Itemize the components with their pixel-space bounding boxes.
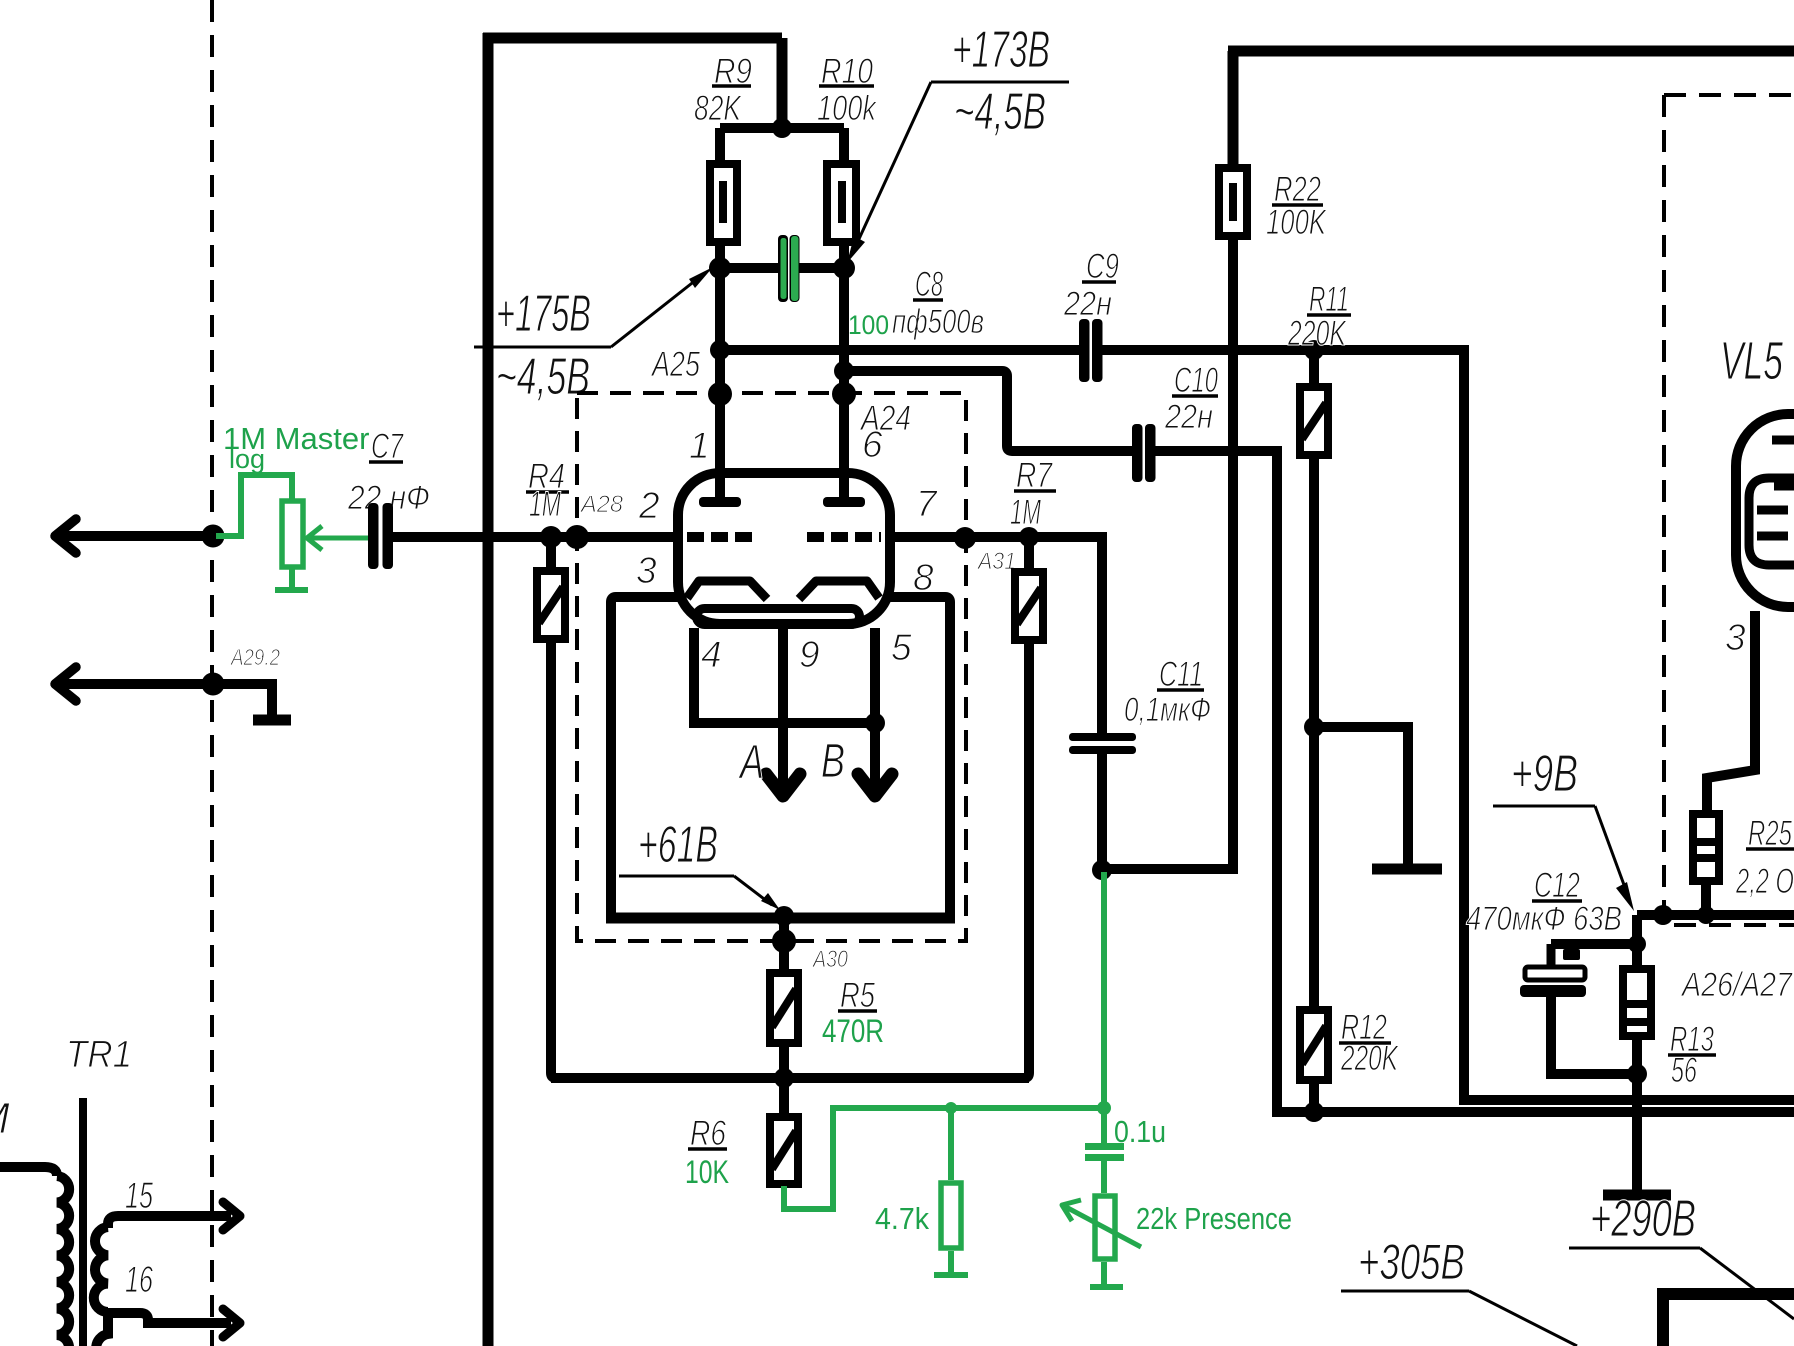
junction dot R25 bottom (1697, 906, 1715, 924)
svg-text:R6: R6 (690, 1114, 726, 1153)
wire from A29.2 to ground (213, 684, 272, 716)
wire R5 to rail (779, 1047, 789, 1113)
resistor R13 body (1623, 969, 1651, 1036)
svg-text:220K: 220K (1340, 1039, 1399, 1078)
svg-text:22н: 22н (1063, 285, 1112, 323)
anode plate pin 1 (699, 497, 741, 507)
wire R4 bottom to cathode rail (551, 643, 606, 1078)
svg-text:22н: 22н (1164, 398, 1213, 436)
green wire 0.1u to presence pot (1101, 1161, 1107, 1193)
svg-text:4: 4 (701, 634, 722, 675)
heater stadium bar (697, 609, 860, 625)
cathode return rail (551, 1073, 1029, 1083)
green 4.7k lower lead (948, 1251, 954, 1272)
TR1 primary lead wire (0, 1167, 57, 1176)
wire: left output arrow shaft (to master pot) (62, 531, 214, 541)
wire C11 bottom (1097, 754, 1107, 871)
+9V heater rail (1459, 1095, 1794, 1105)
wire R13 to +290V ground (1632, 1040, 1642, 1190)
heater bottom wire 4-5 (689, 718, 882, 728)
wire: big feedback box left vertical (483, 33, 494, 1346)
resistor R11 leads (1309, 350, 1319, 383)
svg-text:C7: C7 (371, 427, 404, 466)
svg-text:470мкФ 63В: 470мкФ 63В (1466, 900, 1622, 938)
svg-text:4.7k: 4.7k (875, 1201, 929, 1236)
junction dot R7 top (1019, 527, 1039, 547)
svg-text:A30: A30 (811, 946, 848, 973)
svg-text:пф500в: пф500в (892, 303, 984, 341)
capacitor C12 bottom lead (1551, 997, 1637, 1074)
svg-text:9: 9 (799, 634, 820, 675)
junction dot R5/R6 on rail (774, 1068, 794, 1088)
arrow head left output 2 (55, 667, 76, 701)
cathode right triode (799, 581, 879, 599)
master pot ground bar (green) (275, 587, 308, 593)
svg-text:A25: A25 (650, 345, 700, 384)
junction dot R11 top (1304, 340, 1324, 360)
svg-text:82K: 82K (694, 89, 742, 128)
svg-text:C11: C11 (1159, 655, 1203, 694)
wire R12 to HT rail (1309, 1084, 1319, 1112)
svg-text:1M: 1M (529, 485, 562, 524)
wire R11 to R12 (1309, 459, 1319, 1006)
cathode box bottom wire (606, 913, 955, 924)
resistor R22 body (1219, 168, 1247, 236)
wire C11 link to R22 line (1102, 864, 1238, 874)
svg-text:+290В: +290В (1590, 1190, 1696, 1248)
grid dashes (right triode) (807, 532, 881, 542)
wire: R9/R10 top connection (720, 123, 844, 133)
wire branch to C12 (1551, 939, 1637, 949)
junction dot C8-wire branch (710, 340, 730, 360)
heater pin 5 wire (870, 628, 880, 723)
wire VL5 cathode pin3 to R25 (1707, 611, 1755, 810)
potentiometer 1M Master (green) body (282, 501, 303, 567)
wire: second output arrow shaft A29.2 (62, 679, 214, 689)
svg-text:3: 3 (1725, 617, 1746, 658)
resistor R11 body (1300, 387, 1328, 455)
wire down to R13 (1632, 915, 1642, 965)
wire C9 to corner (1102, 345, 1469, 355)
junction dot heater B (865, 713, 885, 733)
wire anode to C9 (plate output) (720, 345, 1081, 355)
resistor R4 leads (546, 537, 556, 567)
wire R22 down to C11 junction (1228, 240, 1238, 869)
svg-text:100K: 100K (1266, 203, 1327, 242)
heater arrow A (pin 9) (778, 628, 788, 790)
wire R22 drop from top rail (1228, 51, 1239, 164)
resistor R5 body (770, 973, 798, 1043)
wire R7 bottom to rail (1024, 644, 1029, 1078)
net boundary dashed line (left) (210, 0, 214, 1346)
resistor R10 leads (839, 128, 849, 162)
TR1 secondary winding 15-16 (94, 1227, 108, 1312)
svg-text:VL5: VL5 (1720, 331, 1784, 391)
svg-text:A28: A28 (579, 491, 624, 518)
master pot lower lead (green) (289, 569, 295, 588)
svg-text:7: 7 (916, 483, 938, 524)
resistor R25 body (1693, 814, 1719, 881)
svg-text:3: 3 (636, 550, 657, 591)
VL5 heater dashes (1772, 436, 1794, 445)
capacitor C12 plates (electrolytic) (1525, 967, 1585, 980)
green potentiometer 22k body (1095, 1196, 1115, 1259)
svg-text:6: 6 (862, 424, 883, 465)
resistor R10 body (827, 164, 856, 242)
arrow head left output 1 (55, 519, 76, 553)
svg-text:R25: R25 (1748, 814, 1792, 853)
master pot wiper arrow (green) from C7 (308, 536, 369, 541)
resistor R4 body (537, 571, 565, 639)
resistor R9 leads (715, 128, 725, 162)
svg-text:1M: 1M (1010, 493, 1042, 532)
svg-text:2,2 О: 2,2 О (1735, 862, 1794, 901)
shield dashed box around triode (577, 393, 966, 941)
junction dot R13 bottom (1627, 1064, 1647, 1084)
cathode left triode (687, 581, 767, 599)
wire C10 to corner (1155, 446, 1282, 456)
TR1 lower winding continues (96, 1312, 108, 1346)
callout arrow to right triode anode (853, 82, 931, 252)
green pot arrow (1064, 1206, 1141, 1247)
svg-text:15: 15 (125, 1175, 153, 1216)
svg-text:+173В: +173В (952, 21, 1050, 79)
node dot right anode (833, 257, 855, 279)
capacitor C8 plates (black under green mod) (778, 235, 788, 302)
junction dot plate supply (772, 118, 792, 138)
svg-text:16: 16 (125, 1259, 153, 1300)
ground (chassis) +290V (1603, 1190, 1671, 1201)
junction dot cathode box / R5 (774, 906, 794, 926)
svg-text:0.1u: 0.1u (1114, 1114, 1166, 1149)
svg-text:8: 8 (913, 557, 934, 598)
wire main grid drop to C11 (1097, 532, 1107, 733)
junction dot at shield boundary A28 (565, 525, 589, 549)
junction dot bias ground tap (1304, 717, 1324, 737)
green junction dot 4.7k (945, 1102, 957, 1114)
cathode node wire VL5 (1637, 910, 1794, 920)
heater arrow B (870, 723, 880, 790)
wire A24 step to C10 (844, 371, 1133, 451)
svg-text:A26/A27: A26/A27 (1680, 966, 1793, 1004)
junction dot R12 on rail (1304, 1102, 1324, 1122)
wire C7 to R4/grid (main signal wire) (393, 532, 679, 542)
top supply rail (1228, 46, 1794, 57)
wire cathode box to R5 (779, 916, 789, 969)
node A29.2 dot (202, 673, 225, 696)
green resistor 4.7k body (941, 1183, 961, 1248)
wire pin8 to cathode box (890, 597, 950, 918)
svg-text:+9В: +9В (1511, 745, 1578, 803)
green pot ground bar (1090, 1284, 1123, 1290)
capacitor C8 green overdrawn plates (781, 238, 787, 299)
TR1 pin 16 wire with arrow (108, 1313, 231, 1323)
node dot left anode (709, 257, 731, 279)
svg-text:B: B (821, 735, 845, 788)
svg-text:10K: 10K (685, 1154, 729, 1190)
ground (chassis) for A29.2 (253, 715, 291, 726)
green resistor 4.7k lead (948, 1108, 954, 1180)
green pot lower lead (1101, 1262, 1107, 1284)
resistor R6 body (770, 1117, 798, 1184)
svg-text:2: 2 (638, 485, 660, 526)
svg-text:TR1: TR1 (66, 1034, 132, 1076)
callout arrow to left triode anode (611, 276, 701, 347)
green riser to C11 node (1101, 872, 1107, 1108)
junction dot C10-wire branch (834, 361, 854, 381)
node dot on dashed line (master wire) (202, 525, 225, 548)
ground (chassis) bias (1372, 864, 1442, 875)
svg-text:A31: A31 (976, 548, 1016, 575)
svg-text:C8: C8 (915, 265, 943, 304)
green capacitor 0.1u lead (1101, 1108, 1107, 1144)
resistor R7 body (1015, 572, 1043, 640)
green wire from node to master pot top (216, 475, 292, 536)
svg-text:5: 5 (891, 627, 912, 668)
capacitor C10 plates (1132, 424, 1143, 482)
junction dot A30 on shield edge (772, 929, 796, 953)
capacitor C12 top lead (1547, 944, 1556, 968)
wire vertical from C10 down to HT rail (1272, 451, 1282, 1112)
junction dot at shield box top (pin6) (832, 382, 856, 406)
junction dot C11 bottom / presence tap (1092, 860, 1112, 880)
resistor R12 body (1300, 1010, 1328, 1080)
power block corner box (1663, 1294, 1794, 1346)
svg-text:A: A (738, 736, 764, 789)
svg-text:C10: C10 (1174, 361, 1218, 400)
C12 polarity mark (1563, 949, 1580, 960)
svg-text:+305В: +305В (1358, 1234, 1465, 1290)
TR1 pin 15 wire with arrow (108, 1216, 231, 1228)
green wire R6 to presence node (784, 1108, 1104, 1209)
wire: big feedback box top (483, 33, 782, 44)
tube VL4 envelope (678, 473, 890, 624)
grid dashes (left triode) (687, 532, 758, 542)
svg-text:+175В: +175В (496, 285, 591, 343)
resistor R7 leads (1024, 537, 1034, 568)
HT return rail (1272, 1107, 1794, 1117)
svg-text:100: 100 (848, 310, 889, 340)
wire R25 to cathode node (1701, 885, 1711, 915)
capacitor C11 plates (horizontal) (1069, 733, 1136, 741)
svg-text:56: 56 (1671, 1051, 1697, 1090)
junction dot cathode node (1653, 905, 1673, 925)
capacitor C9 plates (1079, 319, 1090, 382)
green junction dot presence (1097, 1101, 1111, 1115)
TR1 primary winding (57, 1176, 69, 1346)
svg-text:1: 1 (689, 425, 710, 466)
resistor R9 body (710, 164, 737, 242)
green capacitor 0.1u plates (1085, 1143, 1124, 1150)
VL5 shield dashed corner (1662, 95, 1666, 910)
VL5 inner grid box (1749, 478, 1794, 565)
svg-text:100k: 100k (817, 89, 877, 128)
wire left anode down to tube pin 1 (715, 268, 725, 499)
svg-text:M: M (0, 1094, 10, 1143)
svg-text:220K: 220K (1287, 314, 1347, 353)
svg-text:~4,5В: ~4,5В (954, 83, 1046, 141)
wire right anode down to tube pin 6 (839, 268, 849, 499)
svg-text:22k Presence: 22k Presence (1136, 1201, 1292, 1236)
capacitor C7 plates (368, 503, 379, 569)
wire right vertical from C9 down to +9V rail (1459, 350, 1469, 1100)
svg-text:R5: R5 (840, 976, 875, 1015)
svg-text:+61В: +61В (638, 816, 718, 874)
green 4.7k ground bar (934, 1272, 968, 1278)
junction dot at shield box top (pin1) (708, 382, 732, 406)
junction dot C12 branch (1628, 935, 1646, 953)
wire grid pin7 to C11 drop (889, 532, 1102, 542)
tube VL5 envelope (clipped) (1736, 414, 1794, 607)
wire: drop to R9/R10 top junction (777, 38, 788, 128)
wire pin3 to cathode box (611, 597, 678, 918)
svg-text:log: log (229, 444, 265, 474)
heater pin 4 wire (689, 628, 699, 723)
wire to bias ground (1314, 727, 1408, 864)
svg-text:A29.2: A29.2 (229, 644, 280, 670)
svg-text:470R: 470R (822, 1013, 884, 1049)
wire between anode nodes (through C8) (720, 263, 780, 273)
junction dot R4 top (540, 526, 562, 548)
svg-text:R7: R7 (1016, 456, 1053, 495)
svg-text:0,1мкФ: 0,1мкФ (1124, 691, 1211, 729)
junction dot at shield box right (pin7) (954, 527, 976, 549)
svg-text:C9: C9 (1086, 247, 1119, 286)
TR1 core (79, 1098, 87, 1346)
anode plate pin 6 (823, 497, 865, 507)
svg-text:~4,5В: ~4,5В (496, 348, 590, 406)
